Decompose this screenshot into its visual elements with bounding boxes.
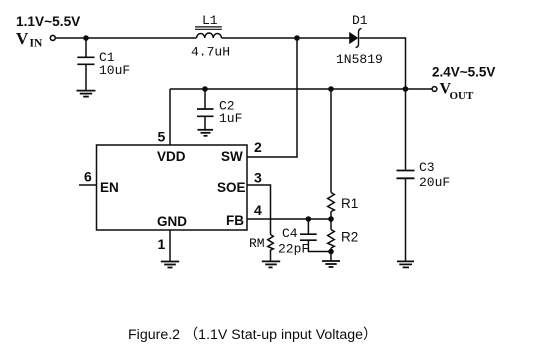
node R2 bottom junction <box>328 249 334 255</box>
wire top: VIN terminal to L1 <box>56 37 197 39</box>
svg-text:C4: C4 <box>282 226 298 241</box>
wire FB node to R2 <box>330 219 332 230</box>
resistor R2 <box>328 230 335 249</box>
svg-text:VDD: VDD <box>157 149 186 164</box>
wire top: L1 to D1 <box>222 37 350 39</box>
wire GND riser (pin 1) <box>169 230 171 261</box>
ground (RM) <box>262 261 280 267</box>
input terminal VIN <box>50 35 55 40</box>
svg-text:R2: R2 <box>341 230 358 245</box>
capacitor C1 <box>77 38 94 90</box>
diode D1 (schottky) <box>350 28 362 47</box>
svg-text:R1: R1 <box>341 196 358 211</box>
IC U1 body <box>97 145 248 230</box>
svg-text:Figure.2 （1.1V Stat-up input V: Figure.2 （1.1V Stat-up input Voltage） <box>128 327 377 343</box>
svg-text:SOE: SOE <box>217 180 246 195</box>
svg-text:1N5819: 1N5819 <box>336 52 383 67</box>
wire VOUT rail <box>170 88 432 90</box>
svg-text:5: 5 <box>158 129 166 145</box>
wire R2 to ground <box>330 248 332 261</box>
svg-text:GND: GND <box>157 214 187 229</box>
node C2 junction <box>202 86 208 92</box>
output terminal VOUT <box>432 87 437 92</box>
capacitor C3 <box>397 89 415 261</box>
node SW top junction <box>294 35 300 41</box>
wire: D1 cathode to corner and down <box>360 38 406 89</box>
svg-text:2.4V~5.5V: 2.4V~5.5V <box>432 65 495 80</box>
svg-text:OUT: OUT <box>450 90 475 102</box>
svg-text:4.7uH: 4.7uH <box>191 45 230 60</box>
svg-text:1uF: 1uF <box>219 111 242 126</box>
svg-text:V: V <box>16 29 29 48</box>
svg-text:20uF: 20uF <box>419 175 450 190</box>
ground (C3) <box>397 261 414 267</box>
svg-text:10uF: 10uF <box>99 63 130 78</box>
svg-text:2: 2 <box>254 139 262 155</box>
svg-text:1.1V~5.5V: 1.1V~5.5V <box>16 14 81 29</box>
ground (pin 1 GND) <box>161 262 179 268</box>
svg-text:RM: RM <box>249 236 265 251</box>
svg-text:L1: L1 <box>202 13 218 28</box>
wire R1 riser from VOUT rail <box>330 89 332 193</box>
svg-text:C3: C3 <box>419 160 435 175</box>
wire FB (pin 4) <box>247 218 331 220</box>
node C4 top junction <box>306 216 312 222</box>
resistor RM <box>268 235 274 251</box>
wire SW riser (pin 2) <box>247 38 297 157</box>
svg-text:22pF: 22pF <box>278 241 309 256</box>
node input junction <box>83 35 89 41</box>
svg-text:3: 3 <box>254 170 262 186</box>
svg-text:D1: D1 <box>352 13 368 28</box>
label VOUT <box>440 81 475 103</box>
node FB divider junction <box>328 216 334 222</box>
label VIN <box>16 29 43 50</box>
ground (C2) <box>198 130 214 136</box>
wire RM to ground <box>270 250 272 261</box>
capacitor C4 <box>300 219 331 252</box>
wire EN stub (pin 6) <box>79 184 97 186</box>
svg-text:FB: FB <box>226 213 244 228</box>
inductor L1 <box>195 27 222 38</box>
ground (C1) <box>77 91 96 97</box>
ground (R2) <box>322 261 340 267</box>
svg-text:SW: SW <box>221 149 243 164</box>
wire R1 to FB node <box>330 212 332 220</box>
svg-text:1: 1 <box>158 236 166 252</box>
node R1 top junction <box>328 86 334 92</box>
svg-text:IN: IN <box>30 38 43 50</box>
capacitor C2 <box>197 89 214 129</box>
wire SOE (pin 3) down through RM <box>247 185 271 235</box>
svg-text:EN: EN <box>100 180 119 195</box>
svg-text:6: 6 <box>84 169 92 185</box>
svg-text:4: 4 <box>254 202 262 218</box>
resistor R1 <box>328 193 335 212</box>
node D1/C3 junction <box>403 86 409 92</box>
wire VDD riser (pin 5) <box>169 89 171 145</box>
